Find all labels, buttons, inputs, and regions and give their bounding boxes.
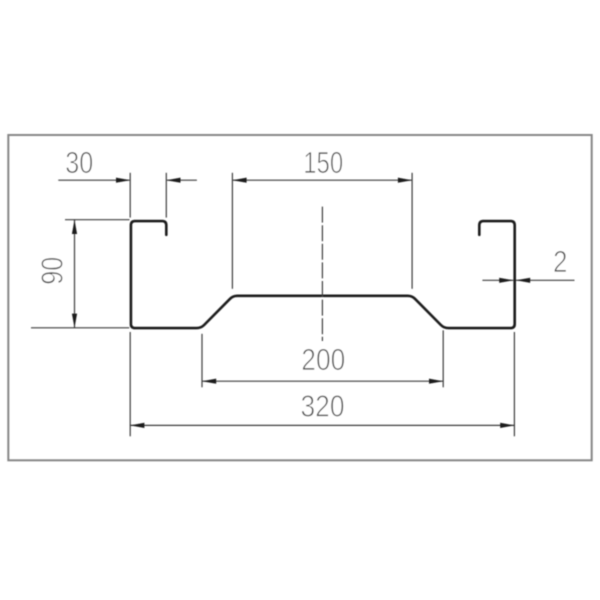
- dimension 30: [58, 173, 197, 218]
- svg-text:90: 90: [35, 257, 70, 285]
- dimension 150: [232, 173, 412, 289]
- dimension 200: [202, 330, 443, 387]
- dimension 320: [130, 332, 514, 436]
- dimension 2: [482, 279, 574, 281]
- svg-text:200: 200: [301, 342, 345, 377]
- center line: [321, 207, 323, 341]
- dimension 90: [31, 220, 130, 328]
- svg-text:2: 2: [553, 244, 568, 279]
- svg-text:320: 320: [301, 389, 345, 424]
- profile outline: [131, 221, 515, 328]
- frame border: [8, 135, 591, 460]
- svg-text:150: 150: [303, 145, 343, 180]
- svg-text:30: 30: [65, 145, 93, 180]
